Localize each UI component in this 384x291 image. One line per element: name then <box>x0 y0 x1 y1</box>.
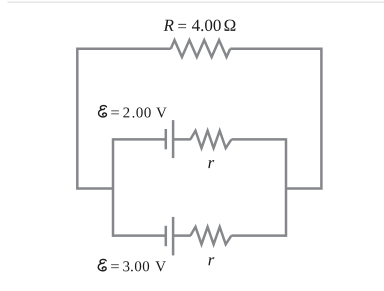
label r (middle branch) <box>208 160 214 168</box>
wire: bottom branch between battery and r <box>173 234 191 237</box>
battery E1 (2.00 V): short plate and long plate <box>166 120 173 158</box>
wire: bottom branch left <box>113 234 166 237</box>
label R = 4.00 ohm <box>163 20 235 32</box>
wire: top-left segment, outer left side, left junction stub <box>77 49 171 189</box>
label EMF1 text "= 2.00 V" <box>111 107 166 117</box>
wire: middle branch left <box>113 138 166 141</box>
resistor r1 (internal resistance, middle branch) <box>190 131 231 148</box>
wire: top-right segment, outer right side, right junction stub <box>230 49 321 189</box>
figure top hairline <box>8 2 384 3</box>
label r (bottom branch) <box>208 257 214 265</box>
label EMF2: script E glyph <box>98 259 166 271</box>
wire: middle branch right <box>231 138 286 141</box>
label EMF1: script E glyph <box>99 106 167 118</box>
label EMF2 text "= 3.00 V" <box>111 261 166 271</box>
wire: inner left vertical (joins the two branches) <box>112 138 115 237</box>
resistor R1 (4.00 ohm) <box>171 40 230 57</box>
wire: inner right vertical (joins the two branches) <box>285 138 288 237</box>
resistor r2 (internal resistance, bottom branch) <box>190 227 231 244</box>
wire: middle branch between battery and r <box>173 138 191 141</box>
battery E2 (3.00 V): short plate and long plate <box>166 217 173 256</box>
wire: bottom branch right <box>231 234 286 237</box>
